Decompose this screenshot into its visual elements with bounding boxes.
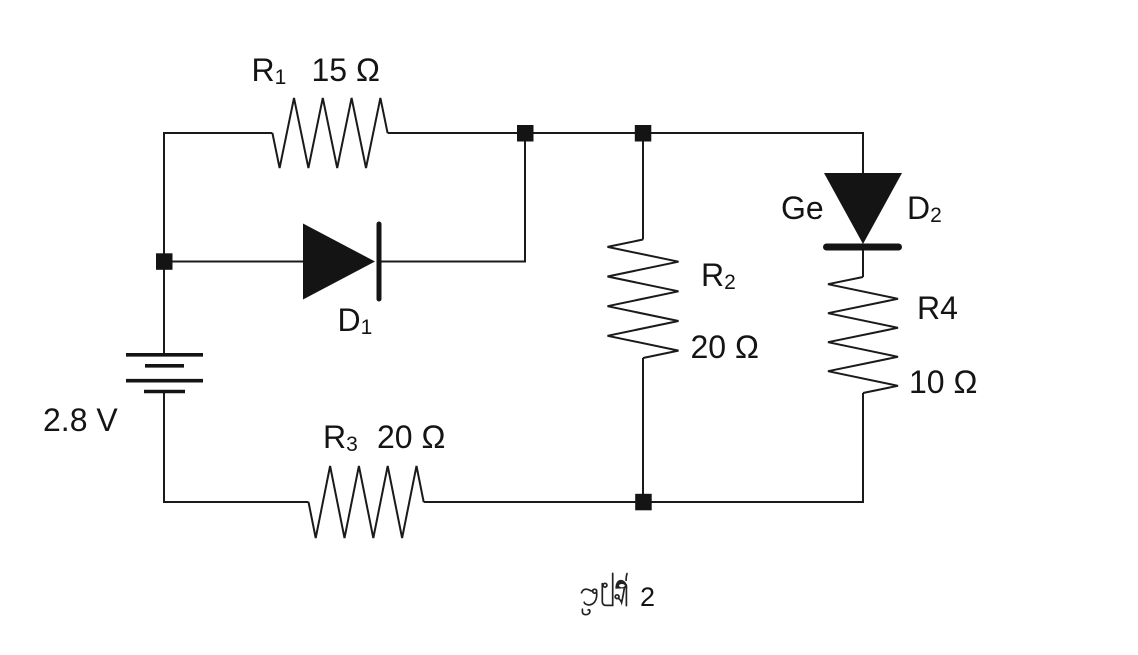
node D (bottom junction R2/bottom rail) — [635, 494, 652, 511]
wire D1 cathode to riser and up to top node — [381, 133, 525, 262]
diode D2 — [824, 173, 902, 247]
resistor R4 — [828, 277, 898, 393]
node C (left junction to D1 anode) — [156, 253, 173, 269]
svg-text:Ge: Ge — [781, 190, 824, 226]
node B (top junction to R2 branch) — [635, 125, 652, 142]
resistor R3 — [309, 466, 424, 538]
svg-text:2: 2 — [640, 582, 655, 612]
wire D2 cathode to R4 top — [862, 249, 864, 277]
svg-text:20 Ω: 20 Ω — [691, 329, 759, 365]
svg-text:15 Ω: 15 Ω — [312, 52, 380, 88]
wire left rail bottom (battery bottom to bottom-left corner to R3) — [164, 393, 309, 503]
node A (top junction to D1 branch) — [517, 125, 534, 142]
wire left rail top and top rail to R1 (battery top to top-left corner to R1) — [164, 133, 272, 354]
svg-text:10 Ω: 10 Ω — [909, 364, 977, 400]
diode D1 — [303, 224, 379, 300]
wire R2 bottom (R2 to bottom node) — [642, 358, 644, 502]
resistor R2 — [608, 240, 679, 359]
wire top rail (R1 to top-right corner down to D2) — [388, 133, 863, 174]
svg-text:2.8 V: 2.8 V — [43, 402, 118, 438]
caption highlight inside sara ii — [619, 584, 625, 587]
caption figure 2 (Thai) — [582, 573, 628, 614]
wire D1 anode (left node to D1) — [164, 261, 303, 263]
wire bottom rail (R3 to bottom-right corner up to R4) — [424, 393, 863, 502]
resistor R1 — [272, 98, 387, 168]
svg-text:R4: R4 — [917, 290, 958, 326]
battery 2.8V — [126, 355, 203, 392]
svg-text:20 Ω: 20 Ω — [377, 419, 445, 455]
wire R2 top (top node down to R2) — [642, 133, 644, 240]
